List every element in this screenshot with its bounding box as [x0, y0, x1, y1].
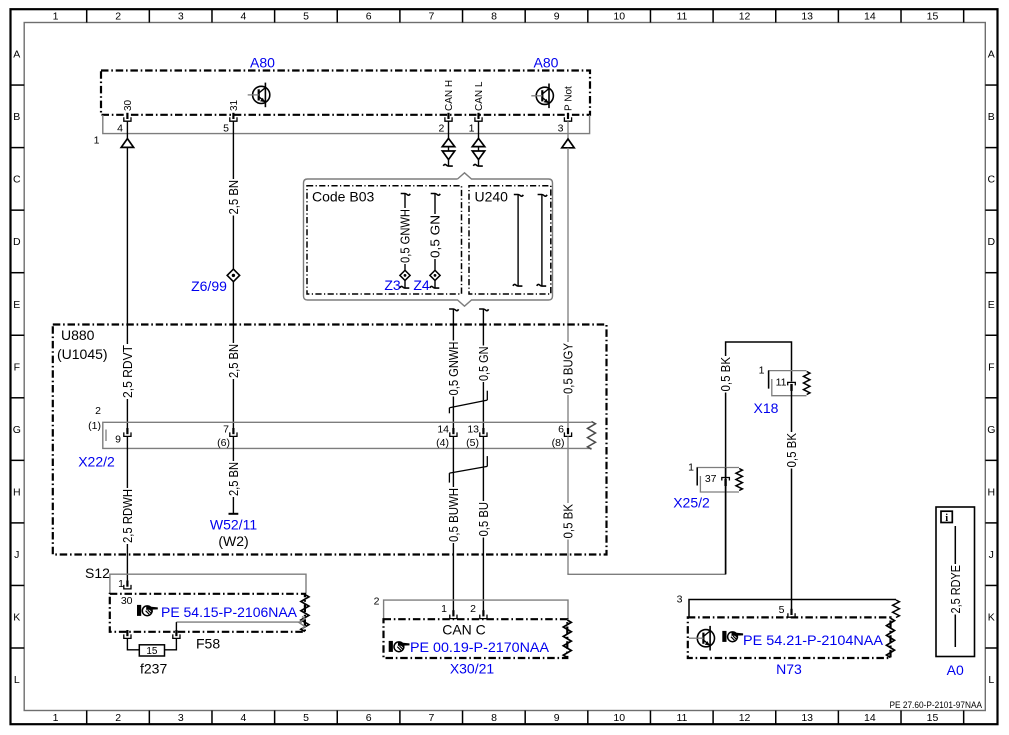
- wire 0,5 BK X18 to N73: [786, 432, 796, 469]
- svg-text:0,5 GN: 0,5 GN: [429, 215, 443, 258]
- wire CAN L in U240: [538, 195, 548, 197]
- svg-text:C: C: [13, 174, 21, 186]
- twisted pair crossover below X22/2: [449, 466, 487, 473]
- connector X22/2 strip: [103, 422, 592, 448]
- splice Z6/99: [227, 269, 239, 281]
- svg-text:E: E: [988, 299, 995, 311]
- wire gray horizontal run to X25/2 riser: [568, 573, 726, 574]
- svg-text:4: 4: [241, 712, 247, 724]
- svg-text:CAN C: CAN C: [442, 622, 486, 638]
- svg-text:0,5 BUWH: 0,5 BUWH: [447, 488, 461, 542]
- legend wire 2,5 RDYE: [954, 526, 956, 647]
- X22/2 strip continuation zigzag: [588, 422, 596, 450]
- svg-text:A0: A0: [947, 662, 964, 678]
- svg-text:2: 2: [115, 10, 121, 22]
- svg-text:f237: f237: [140, 661, 167, 677]
- A80 pin 3 P Not: [567, 113, 569, 119]
- svg-text:2: 2: [95, 405, 101, 417]
- svg-text:i: i: [945, 513, 948, 524]
- svg-text:D: D: [988, 236, 996, 248]
- svg-text:Z3: Z3: [384, 277, 401, 293]
- splice Z4: [430, 270, 440, 280]
- svg-text:0,5 BK: 0,5 BK: [719, 356, 733, 391]
- svg-text:2,5 RDVT: 2,5 RDVT: [121, 345, 135, 398]
- svg-text:30: 30: [123, 99, 134, 111]
- wire S12 to fuse f237: [127, 638, 139, 649]
- svg-text:A80: A80: [250, 55, 275, 71]
- control unit N73 top box: [689, 600, 896, 618]
- svg-text:8: 8: [491, 10, 497, 22]
- splice Z3: [400, 270, 410, 280]
- svg-text:10: 10: [613, 10, 625, 22]
- svg-text:U240: U240: [475, 189, 509, 205]
- svg-text:A: A: [988, 49, 995, 61]
- svg-text:Z4: Z4: [413, 277, 430, 293]
- svg-text:PE 54.15-P-2106NAA: PE 54.15-P-2106NAA: [161, 604, 298, 620]
- svg-text:15: 15: [927, 10, 939, 22]
- svg-text:15: 15: [146, 646, 158, 657]
- svg-text:2: 2: [438, 123, 444, 135]
- svg-text:15: 15: [927, 712, 939, 724]
- twisted pair crossover above X22/2: [449, 400, 487, 408]
- X30/21 pin 2: [482, 610, 484, 616]
- svg-text:12: 12: [739, 10, 751, 22]
- wire CAN H stub with break hook: [448, 160, 450, 166]
- F58 bus bar gray: [176, 621, 302, 623]
- A80 pin 4 terminal 30: [126, 113, 128, 119]
- svg-text:(1): (1): [88, 420, 101, 432]
- svg-text:14: 14: [864, 712, 876, 724]
- svg-text:3: 3: [178, 712, 184, 724]
- svg-text:PE 54.21-P-2104NAA: PE 54.21-P-2104NAA: [743, 632, 884, 648]
- svg-text:8: 8: [491, 712, 497, 724]
- svg-text:E: E: [13, 299, 20, 311]
- X22/2 pin 7 (6): [232, 428, 234, 434]
- svg-text:A: A: [13, 49, 20, 61]
- svg-text:7: 7: [428, 712, 434, 724]
- hand icon CAN C: [389, 641, 410, 652]
- svg-text:2,5 RDYE: 2,5 RDYE: [949, 565, 963, 614]
- svg-text:D: D: [13, 236, 21, 248]
- svg-text:(6): (6): [217, 437, 230, 449]
- svg-text:6: 6: [558, 424, 564, 436]
- switch S12 gray box: [110, 574, 306, 594]
- svg-text:0,5 BU: 0,5 BU: [477, 502, 491, 537]
- wire 2,5 BN pin7 to ground W52/11: [232, 436, 234, 513]
- svg-text:X25/2: X25/2: [673, 495, 710, 511]
- svg-text:(U1045): (U1045): [57, 346, 108, 362]
- F58 bottom pin to fuse right: [175, 630, 177, 636]
- A80 pin 2 CAN H: [447, 113, 449, 119]
- svg-text:14: 14: [864, 10, 876, 22]
- N73 top box zigzag: [893, 600, 900, 618]
- svg-text:J: J: [14, 549, 19, 561]
- svg-text:G: G: [13, 424, 21, 436]
- svg-text:1: 1: [53, 10, 59, 22]
- svg-text:L: L: [14, 674, 20, 686]
- arrows on wire CAN H pin2: [448, 121, 450, 138]
- svg-text:X18: X18: [754, 400, 779, 416]
- svg-text:11: 11: [776, 377, 787, 389]
- direction arrow on wire pin4: [126, 121, 128, 138]
- svg-text:2: 2: [115, 712, 121, 724]
- wire black riser X25/2: [726, 342, 792, 574]
- svg-text:(5): (5): [466, 437, 479, 449]
- legend box A0: [936, 507, 975, 657]
- svg-text:H: H: [988, 486, 996, 498]
- svg-text:2: 2: [374, 596, 380, 608]
- control unit A80 dash-dot box: [101, 71, 590, 115]
- svg-text:5: 5: [779, 604, 785, 616]
- svg-text:P Not: P Not: [564, 86, 575, 111]
- hand icon N73: [722, 631, 743, 642]
- svg-text:0,5 GNWH: 0,5 GNWH: [447, 342, 461, 396]
- svg-text:1: 1: [688, 462, 694, 474]
- N73 dash-dot box: [688, 617, 891, 658]
- svg-text:B: B: [13, 111, 20, 123]
- F58 bottom pin to fuse left: [126, 630, 128, 636]
- wire stub below Z4: [434, 280, 436, 288]
- svg-text:A80: A80: [534, 55, 559, 71]
- svg-text:U880: U880: [61, 327, 95, 343]
- wire 2,5 BN pin5 to Z6/99: [232, 121, 234, 428]
- svg-text:Code B03: Code B03: [312, 189, 374, 205]
- legend info icon: [941, 511, 952, 522]
- svg-text:(8): (8): [552, 437, 565, 449]
- frame column ticks top: [86, 9, 88, 22]
- X18 pin 11: [788, 382, 796, 385]
- svg-text:13: 13: [801, 712, 813, 724]
- svg-text:9: 9: [554, 712, 560, 724]
- svg-text:5: 5: [223, 123, 229, 135]
- svg-text:1: 1: [94, 135, 100, 147]
- svg-text:CAN L: CAN L: [474, 81, 485, 111]
- frame row ticks right: [985, 84, 997, 86]
- svg-text:14: 14: [437, 424, 449, 436]
- svg-text:PE 27.60-P-2101-97NAA: PE 27.60-P-2101-97NAA: [890, 700, 983, 710]
- svg-text:J: J: [989, 549, 994, 561]
- svg-text:S12: S12: [85, 565, 110, 581]
- svg-text:37: 37: [705, 473, 717, 485]
- svg-text:3: 3: [178, 10, 184, 22]
- svg-text:9: 9: [554, 10, 560, 22]
- wire CAN L resume below variant box: [479, 309, 489, 311]
- svg-text:12: 12: [739, 712, 751, 724]
- svg-text:11: 11: [676, 712, 687, 724]
- svg-text:(4): (4): [436, 437, 449, 449]
- A80 pin 5 terminal 31: [232, 113, 234, 119]
- svg-text:5: 5: [303, 712, 309, 724]
- wire 0,5 GNWH in Code B03: [401, 194, 411, 196]
- wire 2,5 RDWH pin9 to S12: [126, 436, 128, 580]
- svg-text:1: 1: [441, 603, 447, 615]
- svg-text:0,5 GNWH: 0,5 GNWH: [399, 209, 413, 263]
- wire 0,5 BUWH pin14 to CAN C pin1: [452, 436, 454, 610]
- svg-text:3: 3: [677, 594, 683, 606]
- svg-text:F: F: [988, 361, 994, 373]
- svg-text:2,5 BN: 2,5 BN: [227, 344, 241, 378]
- svg-text:9: 9: [115, 434, 121, 446]
- svg-text:N73: N73: [776, 661, 802, 677]
- connector X18 box: [772, 379, 807, 396]
- svg-text:4: 4: [241, 10, 247, 22]
- wire CAN L stub with break hook: [478, 160, 480, 166]
- svg-text:13: 13: [801, 10, 813, 22]
- svg-text:1: 1: [469, 123, 475, 135]
- transistor icon in N73: [697, 630, 714, 647]
- svg-text:L: L: [988, 674, 994, 686]
- frame column ticks bottom: [86, 711, 88, 725]
- svg-text:7: 7: [428, 10, 434, 22]
- svg-text:0,5 BK: 0,5 BK: [785, 432, 799, 467]
- svg-text:11: 11: [676, 10, 687, 22]
- svg-text:4: 4: [117, 123, 123, 135]
- wire 0,5 BU pin13 to CAN C pin2: [482, 436, 484, 610]
- wire 0,5 BK pin6 to junction gray: [567, 436, 569, 573]
- wire stub below Z3: [404, 280, 406, 288]
- connector X25/2 box: [700, 476, 739, 492]
- svg-text:30: 30: [121, 595, 133, 607]
- svg-text:Z6/99: Z6/99: [191, 278, 227, 294]
- svg-text:F58: F58: [196, 636, 220, 652]
- S12 pin 1: [126, 581, 128, 587]
- svg-text:0,5 GN: 0,5 GN: [477, 347, 491, 382]
- A80 pin 1 CAN L: [477, 113, 479, 119]
- control unit U880 dash-dot box: [53, 325, 607, 555]
- X22/2 pin 13 (5): [482, 428, 484, 434]
- transistor icon U2 in A80: [536, 87, 553, 104]
- svg-text:W52/11: W52/11: [210, 517, 257, 533]
- wire labels 0,5 GN inside U880: [478, 346, 488, 383]
- svg-text:6: 6: [366, 712, 372, 724]
- wire 2,5 BN Z6/99 to X22/2 pin7: [228, 343, 238, 379]
- hand icon F58: [137, 605, 158, 616]
- wire 0,5 BUGY pin3 to U880 pin6 gray: [567, 148, 569, 429]
- wire 0,5 GN in Code B03: [431, 194, 441, 196]
- wire CAN H resume below variant box: [449, 309, 459, 311]
- X22/2 pin 14 (4): [452, 428, 454, 434]
- svg-text:2: 2: [470, 603, 476, 615]
- variant box U240: [469, 186, 551, 294]
- variant box Code B03: [307, 186, 462, 294]
- direction arrow on wire pin3: [567, 121, 569, 139]
- svg-text:5: 5: [303, 10, 309, 22]
- frame row ticks left: [11, 84, 25, 86]
- arrows on wire CAN L pin1: [478, 121, 480, 138]
- wire labels 0,5 GNWH inside U880: [448, 341, 458, 397]
- svg-text:13: 13: [467, 424, 479, 436]
- svg-text:31: 31: [229, 99, 240, 111]
- variant bracket outline: [304, 173, 553, 306]
- svg-text:K: K: [988, 612, 995, 624]
- svg-text:CAN H: CAN H: [444, 80, 455, 111]
- X22/2 pin 9: [126, 428, 128, 434]
- svg-text:K: K: [13, 612, 20, 624]
- svg-text:2,5 RDWH: 2,5 RDWH: [121, 489, 135, 543]
- N73 pin 5: [790, 609, 792, 615]
- svg-text:3: 3: [558, 123, 564, 135]
- N73 box continuation zigzag: [887, 618, 895, 657]
- X25/2 pin 37: [725, 468, 727, 480]
- A80 connector strip: [103, 115, 590, 134]
- X25/2 continuation zigzag: [736, 469, 742, 491]
- svg-text:0,5 BUGY: 0,5 BUGY: [562, 342, 576, 394]
- ground W52/11 bar: [229, 513, 239, 515]
- X22/2 pin 6 (8): [567, 428, 569, 434]
- svg-text:10: 10: [613, 712, 625, 724]
- svg-text:2,5 BN: 2,5 BN: [227, 462, 241, 496]
- fuse f237 box: [139, 645, 164, 656]
- svg-text:1: 1: [53, 712, 59, 724]
- svg-text:B: B: [988, 111, 995, 123]
- transistor icon U1 in A80: [253, 86, 270, 103]
- wire CAN H in U240: [514, 195, 524, 197]
- svg-text:1: 1: [759, 365, 765, 377]
- svg-text:F: F: [14, 361, 20, 373]
- svg-text:2,5 BN: 2,5 BN: [227, 180, 241, 215]
- svg-text:C: C: [988, 174, 996, 186]
- X18 continuation zigzag: [804, 372, 810, 395]
- svg-text:PE 00.19-P-2170NAA: PE 00.19-P-2170NAA: [410, 639, 550, 655]
- CAN C dash-dot box: [384, 619, 568, 658]
- wire fuse to F58 bus: [165, 638, 177, 649]
- svg-text:G: G: [987, 424, 995, 436]
- svg-text:(W2): (W2): [218, 533, 248, 549]
- svg-text:X22/2: X22/2: [78, 454, 115, 470]
- fuse box F58 dash-dot box: [110, 594, 305, 632]
- CAN C box continuation zigzag: [563, 620, 571, 658]
- svg-text:X30/21: X30/21: [450, 661, 495, 677]
- svg-text:1: 1: [118, 578, 124, 590]
- svg-text:7: 7: [223, 424, 229, 436]
- svg-text:0,5 BK: 0,5 BK: [562, 503, 576, 538]
- F58 box continuation zigzag: [301, 595, 309, 632]
- connector X30/21 gray box: [384, 600, 568, 619]
- svg-text:H: H: [13, 486, 21, 498]
- wire 2,5 RDVT pin4 to X22/2 pin9: [126, 147, 128, 428]
- svg-text:6: 6: [366, 10, 372, 22]
- X30/21 pin 1: [452, 610, 454, 616]
